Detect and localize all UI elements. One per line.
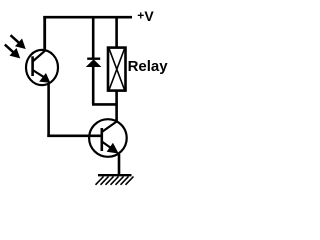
diode D1 [87, 59, 100, 67]
wire diode branch bottom [92, 66, 95, 105]
wire diode branch top [92, 16, 95, 58]
wire top rail [43, 16, 132, 19]
svg-text:Relay: Relay [128, 58, 169, 75]
relay coil RY1 [108, 48, 126, 91]
transistor Q2 [89, 119, 127, 157]
wire Q1 emitter vertical [47, 83, 50, 137]
wire relay to Q2 collector [115, 90, 118, 122]
wire bottom connector to collector node [92, 103, 117, 106]
light arrow lower [5, 45, 19, 58]
wire Q1 collector drop [43, 16, 46, 51]
phototransistor Q1 [26, 50, 58, 85]
wire base horizontal to Q2 [47, 135, 101, 138]
light arrow upper [11, 35, 25, 48]
svg-text:+V: +V [137, 8, 154, 24]
wire relay branch top [115, 16, 118, 48]
wire Q2 emitter to ground [118, 154, 121, 176]
ground [96, 175, 134, 185]
